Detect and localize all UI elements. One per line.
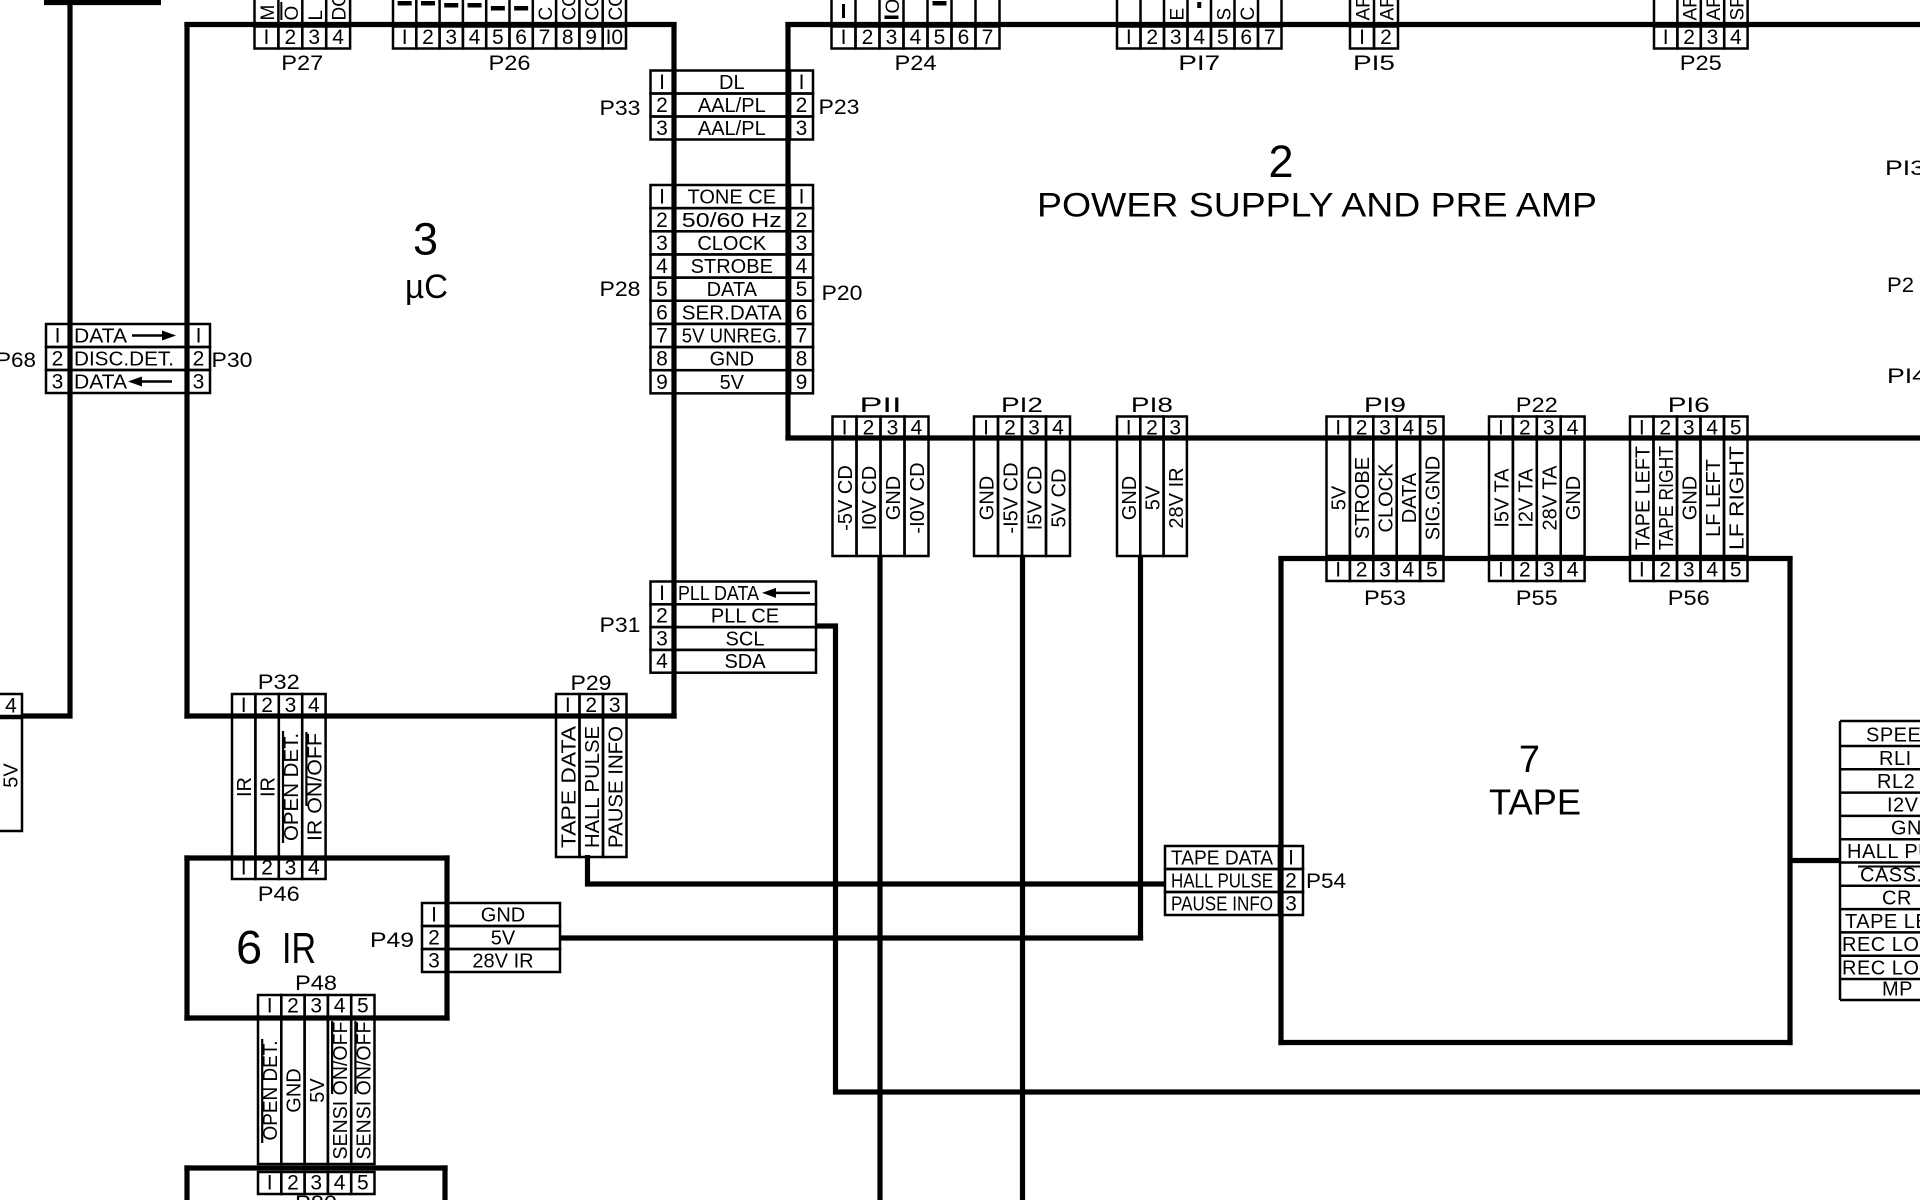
svg-text:5: 5 bbox=[357, 995, 369, 1018]
svg-text:PII: PII bbox=[860, 394, 902, 417]
svg-text:3: 3 bbox=[308, 26, 320, 49]
svg-text:3: 3 bbox=[656, 627, 668, 650]
relay table row RL2 bbox=[1840, 768, 1920, 771]
svg-text:CO: CO bbox=[606, 0, 627, 21]
svg-text:2: 2 bbox=[585, 694, 597, 717]
svg-text:GND: GND bbox=[283, 1068, 305, 1112]
svg-text:P27: P27 bbox=[281, 52, 323, 75]
wire HALL PULSE from P29 to P54 bbox=[588, 855, 1166, 884]
connector P27 pin number row bbox=[255, 27, 279, 49]
svg-text:3: 3 bbox=[1543, 559, 1555, 582]
wire from tape block right edge to relay signal table bbox=[1788, 858, 1841, 863]
svg-text:P24: P24 bbox=[895, 52, 937, 75]
svg-text:4: 4 bbox=[1567, 417, 1579, 440]
svg-text:3: 3 bbox=[1028, 417, 1040, 440]
svg-text:I: I bbox=[264, 26, 270, 49]
svg-text:P33: P33 bbox=[600, 97, 641, 120]
svg-text:2: 2 bbox=[1659, 559, 1671, 582]
svg-text:2: 2 bbox=[1146, 26, 1158, 49]
relay table row MP bbox=[1840, 978, 1920, 981]
svg-text:2: 2 bbox=[656, 209, 668, 232]
svg-text:4: 4 bbox=[1730, 26, 1742, 49]
svg-text:P30: P30 bbox=[212, 349, 253, 372]
svg-text:P53: P53 bbox=[1364, 587, 1406, 610]
svg-text:GND: GND bbox=[883, 476, 905, 520]
connector P26 pin number row bbox=[393, 27, 416, 49]
svg-text:PAUSE INFO: PAUSE INFO bbox=[1171, 894, 1273, 916]
svg-text:P2: P2 bbox=[1887, 274, 1914, 297]
connector P53 pin number row bbox=[1327, 559, 1350, 581]
svg-text:I: I bbox=[267, 995, 273, 1018]
svg-text:TAPE LEAD: TAPE LEAD bbox=[1845, 911, 1920, 933]
svg-text:5: 5 bbox=[1426, 417, 1438, 440]
svg-text:4: 4 bbox=[1706, 417, 1718, 440]
svg-text:I: I bbox=[842, 417, 848, 440]
connector P54 table bbox=[1165, 846, 1279, 869]
svg-text:2: 2 bbox=[1380, 26, 1392, 49]
svg-text:GND: GND bbox=[977, 476, 999, 520]
block 2 power supply top edge bbox=[785, 22, 1920, 27]
svg-text:P48: P48 bbox=[295, 972, 337, 995]
connector P25 pin number row bbox=[1654, 27, 1677, 49]
svg-text:L: L bbox=[306, 10, 327, 21]
connector P18 signal label cells bbox=[1117, 439, 1140, 556]
svg-text:4: 4 bbox=[1403, 559, 1415, 582]
svg-text:I: I bbox=[799, 186, 805, 209]
svg-text:P28: P28 bbox=[600, 278, 641, 301]
svg-text:I: I bbox=[196, 325, 202, 348]
svg-text:PI5: PI5 bbox=[1353, 52, 1395, 75]
svg-text:7: 7 bbox=[796, 325, 808, 348]
svg-text:I2V: I2V bbox=[1887, 794, 1919, 816]
connector P56 pin number row bbox=[1630, 559, 1654, 581]
connector P15 label cells (cut at top) bbox=[1349, 0, 1352, 22]
block 3 uC right edge bbox=[671, 22, 676, 719]
svg-text:P26: P26 bbox=[489, 52, 531, 75]
svg-text:I: I bbox=[1639, 417, 1645, 440]
svg-text:RL2: RL2 bbox=[1877, 771, 1915, 793]
svg-text:I: I bbox=[1498, 559, 1504, 582]
connector P22 pin number row bbox=[1489, 417, 1513, 440]
connector P80 pin number row bbox=[258, 1172, 281, 1194]
overline on IR ON/OFF label bbox=[305, 732, 307, 806]
svg-text:I: I bbox=[1663, 26, 1669, 49]
connector P16 pin number row bbox=[1630, 417, 1654, 440]
svg-text:2: 2 bbox=[1004, 417, 1016, 440]
svg-text:3: 3 bbox=[193, 371, 205, 394]
svg-text:4: 4 bbox=[1193, 26, 1205, 49]
svg-text:I: I bbox=[1335, 559, 1341, 582]
svg-text:3: 3 bbox=[1170, 26, 1182, 49]
svg-text:DISC.DET.: DISC.DET. bbox=[74, 349, 174, 371]
relay table row CR bbox=[1840, 885, 1920, 888]
svg-text:IR: IR bbox=[258, 777, 280, 797]
overline on CASS.DET row bbox=[1858, 866, 1920, 868]
svg-text:3: 3 bbox=[886, 26, 898, 49]
svg-text:4: 4 bbox=[1567, 559, 1579, 582]
svg-text:I: I bbox=[659, 186, 665, 209]
svg-text:TAPE LEFT: TAPE LEFT bbox=[1632, 446, 1654, 550]
svg-text:STROBE: STROBE bbox=[691, 256, 773, 278]
svg-text:O: O bbox=[282, 6, 303, 21]
svg-text:I: I bbox=[402, 26, 408, 49]
svg-text:AF: AF bbox=[1378, 0, 1399, 21]
svg-text:5: 5 bbox=[934, 26, 946, 49]
svg-text:3: 3 bbox=[887, 417, 899, 440]
svg-text:TAPE RIGHT: TAPE RIGHT bbox=[1656, 446, 1678, 550]
relay table row CASS.DET. bbox=[1840, 861, 1920, 864]
svg-text:PI2: PI2 bbox=[1001, 394, 1043, 417]
svg-text:GND: GND bbox=[1563, 476, 1585, 520]
bottom block left edge bbox=[184, 1165, 189, 1200]
svg-text:AF: AF bbox=[1704, 0, 1725, 21]
svg-text:4: 4 bbox=[332, 26, 344, 49]
svg-text:PI3: PI3 bbox=[1885, 157, 1920, 180]
svg-text:2: 2 bbox=[52, 348, 64, 371]
svg-text:9: 9 bbox=[796, 371, 808, 394]
svg-text:4: 4 bbox=[1706, 559, 1718, 582]
svg-text:PI6: PI6 bbox=[1668, 394, 1710, 417]
svg-text:P20: P20 bbox=[822, 282, 863, 305]
svg-text:I: I bbox=[1126, 417, 1132, 440]
svg-text:9: 9 bbox=[656, 371, 668, 394]
wire from P18 pin stub down to 5V wire bbox=[1138, 556, 1143, 941]
wire left vertical bus from top edge down to IR-area junction bbox=[67, 0, 72, 719]
svg-text:7: 7 bbox=[539, 26, 551, 49]
svg-text:P46: P46 bbox=[258, 883, 300, 906]
left cut connector pin cell 4 bbox=[0, 694, 22, 716]
svg-text:2: 2 bbox=[862, 26, 874, 49]
connector P32 signal label cells bbox=[232, 717, 255, 858]
overline on P48 SENSI ON/OFF labels bbox=[331, 1021, 333, 1094]
connector P32 pin number row bbox=[232, 694, 255, 717]
svg-text:2: 2 bbox=[428, 927, 440, 950]
svg-text:I: I bbox=[659, 582, 665, 605]
svg-text:IR ON/OFF: IR ON/OFF bbox=[304, 733, 326, 841]
svg-text:HALL PULSE: HALL PULSE bbox=[1171, 871, 1273, 893]
svg-text:PI8: PI8 bbox=[1131, 394, 1173, 417]
svg-text:P56: P56 bbox=[1668, 587, 1710, 610]
svg-text:P49: P49 bbox=[370, 929, 414, 952]
connector P17 label cells (cut at top) bbox=[1116, 0, 1119, 22]
svg-text:I: I bbox=[1639, 559, 1645, 582]
svg-text:SDA: SDA bbox=[724, 651, 766, 673]
connector P19 pin number row bbox=[1327, 417, 1350, 440]
connector P26 label cells (cut at top) bbox=[392, 0, 395, 22]
svg-text:2: 2 bbox=[285, 26, 297, 49]
svg-text:3: 3 bbox=[1707, 26, 1719, 49]
svg-text:5: 5 bbox=[656, 278, 668, 301]
svg-text:DATA: DATA bbox=[74, 326, 128, 348]
connector P19 signal label cells bbox=[1327, 439, 1350, 556]
svg-text:8: 8 bbox=[656, 348, 668, 371]
svg-text:5: 5 bbox=[1730, 417, 1742, 440]
svg-text:TAPE DATA: TAPE DATA bbox=[558, 725, 580, 848]
svg-text:PLL CE: PLL CE bbox=[711, 606, 779, 628]
svg-text:MP: MP bbox=[1882, 979, 1913, 1001]
svg-text:REC LOCK: REC LOCK bbox=[1842, 958, 1920, 980]
svg-text:3: 3 bbox=[413, 214, 438, 265]
connector P55 pin number row bbox=[1489, 559, 1513, 581]
svg-text:2: 2 bbox=[287, 995, 299, 1018]
svg-text:7: 7 bbox=[1264, 26, 1276, 49]
connector P11 signal label cells bbox=[833, 439, 857, 556]
relay table row RL1 bbox=[1840, 745, 1920, 748]
svg-text:28V IR: 28V IR bbox=[1166, 467, 1188, 528]
block 6 IR bottom edge bbox=[184, 1015, 449, 1020]
relay table row REC LOCK bbox=[1840, 931, 1920, 934]
svg-text:I: I bbox=[241, 694, 247, 717]
block 6 IR right edge bbox=[444, 855, 449, 1020]
connector P11 pin number row bbox=[833, 417, 857, 440]
svg-text:4: 4 bbox=[656, 650, 668, 673]
svg-text:4: 4 bbox=[796, 255, 808, 278]
svg-text:AAL/PL: AAL/PL bbox=[698, 95, 766, 117]
svg-text:PI9: PI9 bbox=[1364, 394, 1406, 417]
svg-text:3: 3 bbox=[1169, 417, 1181, 440]
relay table row TAPE LEAD bbox=[1840, 908, 1920, 911]
svg-text:OPEN DET.: OPEN DET. bbox=[281, 733, 303, 841]
svg-text:2: 2 bbox=[863, 417, 875, 440]
svg-text:LF RIGHT: LF RIGHT bbox=[1726, 446, 1748, 550]
svg-text:3: 3 bbox=[796, 117, 808, 140]
svg-text:I0: I0 bbox=[606, 26, 624, 49]
svg-text:SER.DATA: SER.DATA bbox=[682, 302, 783, 324]
svg-text:3: 3 bbox=[656, 117, 668, 140]
connector pair P28 P20 table bbox=[651, 185, 674, 208]
block 3 uC bottom edge bbox=[184, 713, 676, 718]
block 2 power supply bottom bus line bbox=[785, 435, 1920, 440]
svg-text:5V: 5V bbox=[491, 928, 516, 950]
svg-text:2: 2 bbox=[1519, 417, 1531, 440]
svg-text:PAUSE INFO: PAUSE INFO bbox=[605, 726, 627, 848]
svg-text:GND: GND bbox=[481, 905, 525, 927]
svg-text:2: 2 bbox=[1519, 559, 1531, 582]
svg-text:5: 5 bbox=[1217, 26, 1229, 49]
svg-text:P25: P25 bbox=[1680, 52, 1722, 75]
wire from P12 pin stub down to bottom edge bbox=[1020, 556, 1025, 1200]
connector P46 pin number row bbox=[232, 857, 255, 879]
svg-text:I: I bbox=[565, 694, 571, 717]
svg-text:50/60 Hz: 50/60 Hz bbox=[682, 210, 782, 232]
svg-text:P31: P31 bbox=[600, 614, 641, 637]
svg-text:I: I bbox=[241, 857, 247, 880]
svg-text:DO: DO bbox=[330, 0, 351, 21]
svg-text:3: 3 bbox=[52, 371, 64, 394]
svg-text:5: 5 bbox=[1426, 559, 1438, 582]
block 6 IR top edge bbox=[184, 855, 449, 860]
svg-text:I2V TA: I2V TA bbox=[1515, 468, 1537, 528]
svg-text:3: 3 bbox=[285, 694, 297, 717]
svg-text:5V: 5V bbox=[1329, 485, 1351, 510]
connector P24 label cells (cut at top) bbox=[830, 0, 833, 22]
svg-text:-I0V CD: -I0V CD bbox=[907, 462, 929, 533]
svg-text:RLI: RLI bbox=[1879, 748, 1912, 770]
svg-text:PI4: PI4 bbox=[1887, 365, 1920, 388]
connector pair P33 P23 table bbox=[651, 71, 674, 94]
svg-text:6: 6 bbox=[656, 301, 668, 324]
svg-text:3: 3 bbox=[609, 694, 621, 717]
svg-text:SP: SP bbox=[1727, 0, 1748, 21]
svg-text:P68: P68 bbox=[0, 349, 36, 372]
svg-text:2: 2 bbox=[422, 26, 434, 49]
svg-text:5V: 5V bbox=[1142, 485, 1164, 510]
svg-text:AF: AF bbox=[1354, 0, 1375, 21]
svg-text:CR: CR bbox=[1882, 888, 1912, 910]
svg-text:3: 3 bbox=[310, 995, 322, 1018]
block 3 uC left edge bbox=[184, 22, 189, 719]
svg-text:28V IR: 28V IR bbox=[472, 951, 533, 973]
svg-text:4: 4 bbox=[910, 26, 922, 49]
svg-text:2: 2 bbox=[1356, 559, 1368, 582]
svg-text:I5V TA: I5V TA bbox=[1491, 468, 1513, 528]
svg-text:4: 4 bbox=[308, 857, 320, 880]
svg-text:5V CD: 5V CD bbox=[1049, 469, 1071, 528]
svg-text:5: 5 bbox=[1730, 559, 1742, 582]
relay table row HALL PULSE bbox=[1840, 838, 1920, 841]
block 6 IR left edge bbox=[184, 855, 189, 1020]
svg-text:P23: P23 bbox=[819, 96, 860, 119]
overline on P48 OPEN DET label bbox=[261, 1039, 263, 1143]
svg-text:POWER SUPPLY AND PRE AMP: POWER SUPPLY AND PRE AMP bbox=[1037, 187, 1597, 225]
svg-text:SPEED: SPEED bbox=[1866, 725, 1920, 747]
svg-text:I: I bbox=[1126, 26, 1132, 49]
svg-text:3: 3 bbox=[1683, 559, 1695, 582]
svg-text:5V UNREG.: 5V UNREG. bbox=[682, 326, 782, 348]
svg-text:P80: P80 bbox=[295, 1192, 337, 1200]
relay table row 12V bbox=[1840, 791, 1920, 794]
svg-text:3: 3 bbox=[656, 232, 668, 255]
svg-text:I: I bbox=[1288, 847, 1294, 870]
bottom block top edge bbox=[184, 1165, 447, 1170]
svg-text:I: I bbox=[1335, 417, 1341, 440]
svg-text:P22: P22 bbox=[1516, 394, 1558, 417]
svg-text:I0V CD: I0V CD bbox=[859, 466, 881, 530]
svg-text:5V: 5V bbox=[720, 372, 745, 394]
left cut connector 5V label cell bbox=[0, 718, 22, 831]
svg-text:5V: 5V bbox=[1, 763, 23, 788]
svg-text:3: 3 bbox=[1285, 893, 1297, 916]
svg-text:GND: GND bbox=[1119, 476, 1141, 520]
svg-text:6: 6 bbox=[236, 921, 262, 974]
svg-text:I: I bbox=[841, 26, 847, 49]
svg-text:HALL PULSE: HALL PULSE bbox=[582, 726, 604, 848]
svg-text:7: 7 bbox=[982, 26, 994, 49]
connector P48 signal label cells bbox=[258, 1017, 281, 1164]
svg-text:3: 3 bbox=[428, 950, 440, 973]
svg-text:P29: P29 bbox=[571, 672, 612, 695]
svg-text:5V: 5V bbox=[307, 1078, 329, 1103]
svg-text:I: I bbox=[55, 325, 61, 348]
svg-text:2: 2 bbox=[261, 857, 273, 880]
svg-text:I: I bbox=[267, 1172, 273, 1195]
svg-text:3: 3 bbox=[285, 857, 297, 880]
wire 5V from P49 to P18 stub bbox=[560, 935, 1143, 940]
svg-text:5: 5 bbox=[492, 26, 504, 49]
svg-text:I: I bbox=[431, 904, 437, 927]
svg-text:I: I bbox=[1498, 417, 1504, 440]
svg-text:2: 2 bbox=[1146, 417, 1158, 440]
svg-text:2: 2 bbox=[796, 209, 808, 232]
connector P29 pin number row bbox=[556, 694, 580, 717]
svg-text:2: 2 bbox=[1683, 26, 1695, 49]
svg-text:6: 6 bbox=[796, 301, 808, 324]
arrow right on P30 DATA row 1 bbox=[162, 331, 176, 341]
connector P24 pin number row bbox=[832, 27, 856, 49]
svg-text:DATA: DATA bbox=[74, 372, 128, 394]
connector P17 pin number row bbox=[1117, 27, 1141, 49]
arrow left on P30 DATA row 3 bbox=[128, 377, 142, 387]
wire PLL CE from P31 to bottom bus bbox=[816, 626, 1920, 1092]
connector P16 signal label cells bbox=[1630, 439, 1654, 556]
svg-text:O: O bbox=[883, 0, 904, 14]
svg-text:2: 2 bbox=[193, 348, 205, 371]
svg-text:PLL DATA: PLL DATA bbox=[678, 583, 760, 605]
svg-text:SIG.GND: SIG.GND bbox=[1422, 456, 1444, 540]
svg-text:3: 3 bbox=[1379, 559, 1391, 582]
svg-text:TAPE: TAPE bbox=[1489, 782, 1581, 823]
svg-text:4: 4 bbox=[1052, 417, 1064, 440]
arrow left on PLL DATA row bbox=[762, 588, 776, 598]
svg-text:P55: P55 bbox=[1516, 587, 1558, 610]
svg-text:2: 2 bbox=[656, 94, 668, 117]
connector P12 pin number row bbox=[974, 417, 998, 440]
svg-text:IR: IR bbox=[234, 777, 256, 797]
svg-text:I: I bbox=[983, 417, 989, 440]
svg-text:2: 2 bbox=[261, 694, 273, 717]
svg-text:4: 4 bbox=[334, 995, 346, 1018]
connector P18 pin number row bbox=[1117, 417, 1140, 440]
connector pair P68 P30 table bbox=[46, 324, 69, 347]
connector P31 table bbox=[651, 582, 674, 605]
svg-text:3: 3 bbox=[1543, 417, 1555, 440]
connector P25 label cells (cut at top) bbox=[1653, 0, 1656, 22]
svg-text:HALL PULSE: HALL PULSE bbox=[1847, 841, 1920, 863]
svg-text:I: I bbox=[659, 71, 665, 94]
svg-text:REC LOCK: REC LOCK bbox=[1842, 934, 1920, 956]
svg-text:E: E bbox=[1167, 8, 1188, 21]
block 7 tape left edge bbox=[1278, 556, 1283, 1045]
svg-text:IR: IR bbox=[282, 924, 316, 973]
svg-text:-5V CD: -5V CD bbox=[835, 465, 857, 531]
block 7 tape bottom edge bbox=[1278, 1040, 1792, 1045]
svg-text:6: 6 bbox=[515, 26, 527, 49]
overline on OPEN DET label bbox=[282, 731, 284, 843]
svg-text:AF: AF bbox=[1681, 0, 1702, 21]
svg-text:4: 4 bbox=[469, 26, 481, 49]
connector P27 label cells (cut at top) bbox=[253, 0, 256, 22]
svg-text:7: 7 bbox=[1519, 739, 1540, 781]
svg-text:2: 2 bbox=[1356, 417, 1368, 440]
svg-text:6: 6 bbox=[958, 26, 970, 49]
block 7 tape top edge bbox=[1278, 556, 1792, 561]
svg-text:GND: GND bbox=[1891, 818, 1920, 840]
svg-text:4: 4 bbox=[656, 255, 668, 278]
svg-text:PI7: PI7 bbox=[1178, 52, 1220, 75]
svg-text:SENSI ON/OFF: SENSI ON/OFF bbox=[330, 1022, 352, 1160]
svg-text:28V TA: 28V TA bbox=[1539, 465, 1561, 531]
svg-text:2: 2 bbox=[1659, 417, 1671, 440]
svg-text:CO: CO bbox=[583, 0, 604, 21]
svg-text:4: 4 bbox=[308, 694, 320, 717]
svg-text:3: 3 bbox=[1683, 417, 1695, 440]
svg-text:DATA: DATA bbox=[1399, 472, 1421, 523]
svg-text:DL: DL bbox=[719, 72, 745, 94]
svg-text:7: 7 bbox=[656, 325, 668, 348]
svg-text:TONE CE: TONE CE bbox=[688, 187, 777, 209]
svg-text:3: 3 bbox=[1379, 417, 1391, 440]
svg-text:6: 6 bbox=[1240, 26, 1252, 49]
